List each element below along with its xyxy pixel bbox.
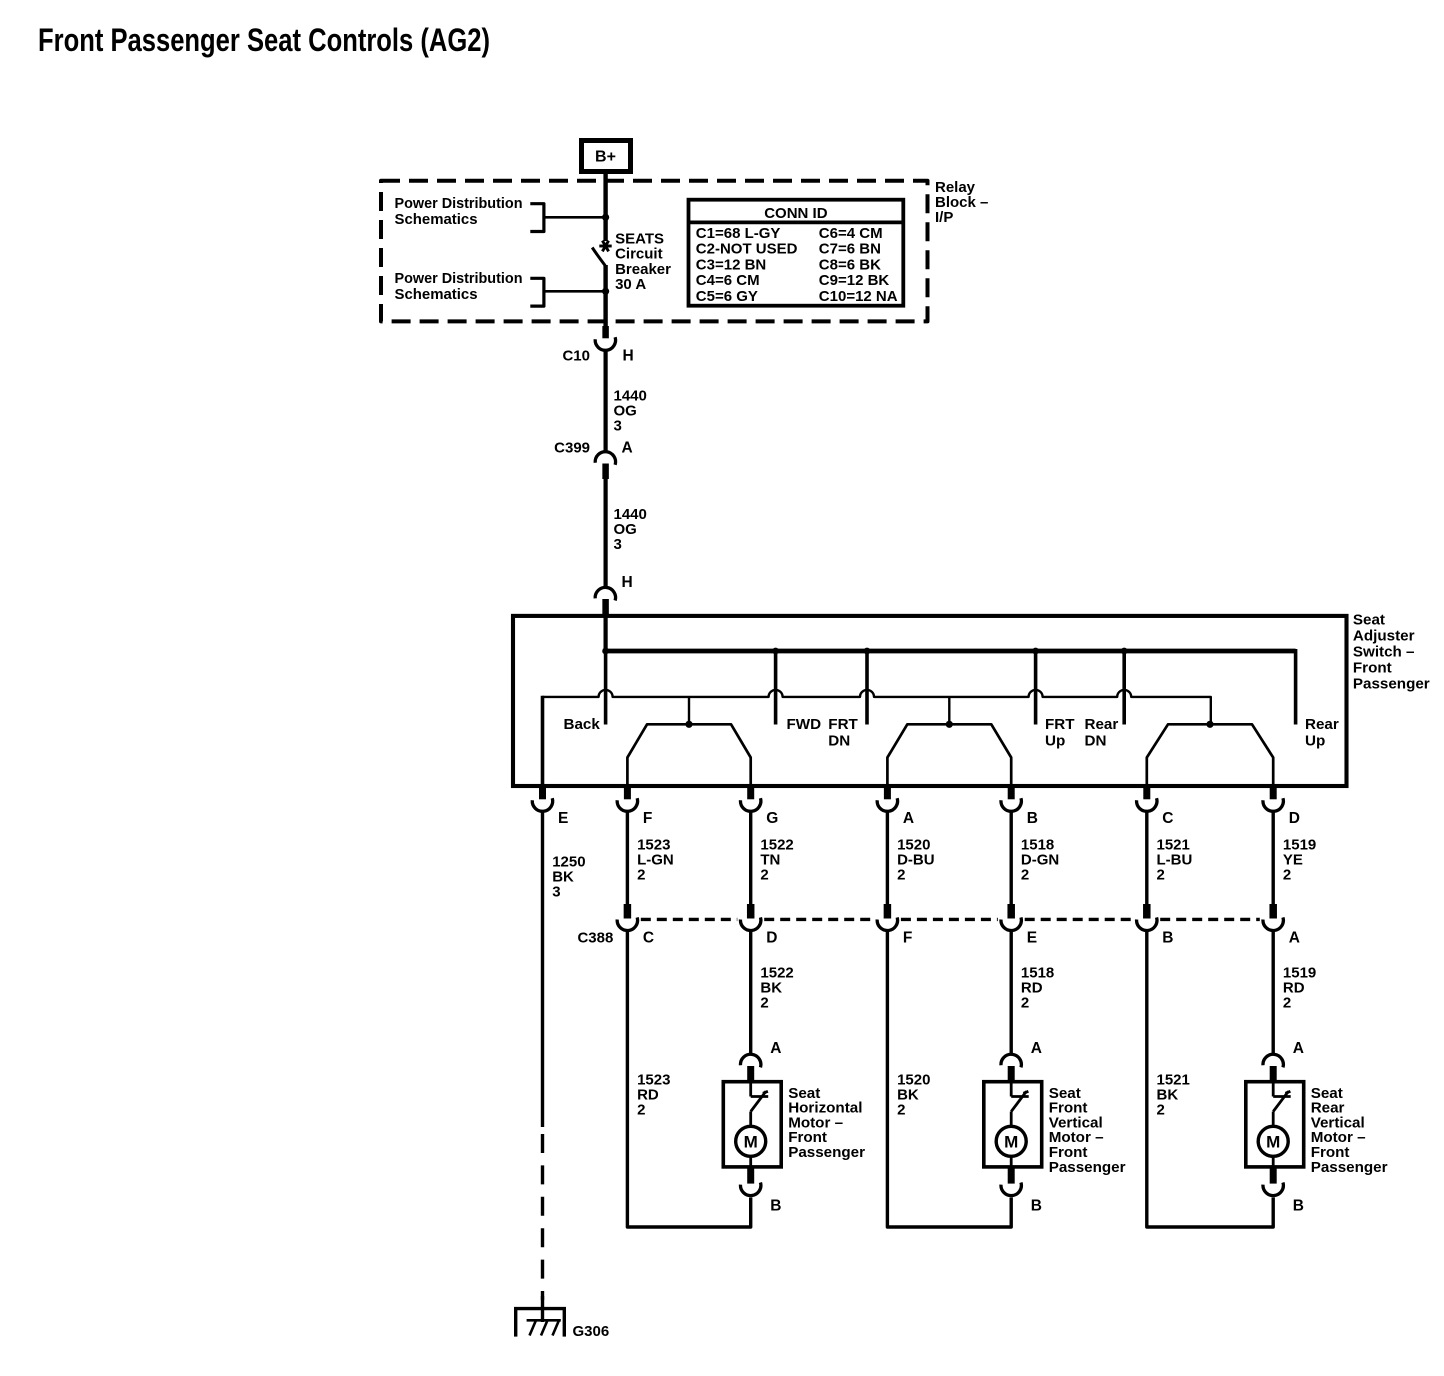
svg-text:E: E (558, 810, 568, 827)
svg-text:H: H (622, 574, 633, 591)
svg-text:C: C (1162, 810, 1173, 827)
FRT Up contact (1034, 651, 1038, 725)
pin E riser (541, 696, 545, 786)
wire to seat horizontal motor - front passenger pin A (749, 931, 752, 1055)
connector C388 pin F (884, 904, 892, 919)
svg-text:3: 3 (614, 536, 622, 553)
connector C388 pin E (1007, 904, 1015, 919)
bracket (top reference) (530, 204, 544, 232)
svg-text:M: M (1004, 1133, 1018, 1152)
wire: H into switch bus (603, 616, 607, 651)
svg-text:DN: DN (828, 733, 850, 750)
svg-text:M: M (744, 1133, 758, 1152)
svg-text:A: A (1293, 1040, 1304, 1057)
bus junction (1032, 648, 1039, 655)
svg-text:FRT: FRT (828, 716, 858, 733)
svg-text:E: E (1027, 929, 1037, 946)
FRT DN contact (865, 651, 869, 725)
svg-text:Passenger: Passenger (1311, 1159, 1388, 1176)
switch pin A (884, 787, 891, 799)
svg-text:C399: C399 (554, 440, 590, 457)
svg-text:B: B (1293, 1198, 1304, 1215)
svg-text:I/P: I/P (935, 209, 953, 226)
svg-text:Rear: Rear (1085, 716, 1119, 733)
relay block I/P dashed outline (381, 181, 928, 322)
seat adjuster switch - front passenger: box (513, 616, 1347, 786)
svg-text:C388: C388 (577, 929, 613, 946)
svg-text:C3=12 BN: C3=12 BN (696, 256, 766, 273)
bus junction (864, 648, 871, 655)
svg-text:Front Passenger Seat Controls: Front Passenger Seat Controls (AG2) (38, 22, 490, 58)
CONN ID table (689, 200, 904, 306)
svg-text:2: 2 (760, 995, 768, 1012)
svg-text:CONN ID: CONN ID (764, 205, 828, 222)
svg-text:2: 2 (1283, 867, 1291, 884)
wire: power dist 1 to main (544, 216, 606, 219)
svg-text:D: D (766, 929, 777, 946)
svg-text:2: 2 (897, 1101, 905, 1118)
svg-text:Power Distribution: Power Distribution (395, 270, 523, 287)
wire: breaker to C10 (603, 265, 607, 330)
svg-text:C7=6 BN: C7=6 BN (819, 241, 881, 258)
svg-text:A: A (1289, 929, 1300, 946)
svg-text:Adjuster: Adjuster (1353, 628, 1415, 645)
wire pin C to C388 (1145, 812, 1148, 905)
seat front vertical motor - front passenger: internal circuit breaker (1010, 1083, 1013, 1097)
switch pin C (1143, 787, 1150, 799)
wire 1440 OG 3 (lower) (603, 477, 607, 588)
ground wire 1250 BK dashed run (541, 1134, 544, 1300)
bracket (bottom reference) (530, 278, 544, 306)
svg-text:C1=68 L-GY: C1=68 L-GY (696, 225, 781, 242)
svg-text:2: 2 (760, 867, 768, 884)
wire: power dist 2 to main (544, 290, 606, 293)
svg-text:2: 2 (637, 1101, 645, 1118)
svg-text:Switch –: Switch – (1353, 644, 1415, 661)
rocker contact bridge at x=689.05 (627, 724, 750, 786)
wire to seat front vertical motor - front passenger pin A (1010, 931, 1013, 1055)
svg-text:C5=6 GY: C5=6 GY (696, 288, 758, 305)
SEATS circuit breaker 30A symbol (599, 245, 611, 248)
return wire loop to seat front vertical motor - front passenger pin B (887, 931, 1011, 1228)
svg-text:2: 2 (1021, 867, 1029, 884)
rocker pivot junction (1206, 721, 1213, 728)
svg-text:Front: Front (1353, 660, 1392, 677)
seat front vertical motor - front passenger: motor box (984, 1082, 1042, 1167)
svg-text:Back: Back (564, 716, 601, 733)
seat rear vertical motor - front passenger: connector pin B (1270, 1168, 1277, 1184)
svg-text:C2-NOT USED: C2-NOT USED (696, 241, 798, 258)
svg-text:G: G (766, 810, 778, 827)
FWD contact (774, 651, 778, 725)
breaker blade (592, 248, 605, 266)
seat rear vertical motor - front passenger: internal circuit breaker (1272, 1083, 1275, 1097)
svg-text:H: H (623, 348, 634, 365)
svg-text:2: 2 (1021, 995, 1029, 1012)
svg-text:B+: B+ (595, 149, 616, 166)
rocker pivot junction (685, 721, 692, 728)
seat rear vertical motor - front passenger: motor box (1246, 1082, 1304, 1167)
connector C388 pin A (1269, 904, 1277, 919)
Back contact (604, 651, 608, 725)
return wire loop to seat horizontal motor - front passenger pin B (627, 931, 750, 1228)
svg-text:B: B (1027, 810, 1038, 827)
svg-text:F: F (903, 929, 912, 946)
junction (602, 288, 609, 295)
svg-text:C10=12 NA: C10=12 NA (819, 288, 898, 305)
wire 1440 OG 3 (upper) (603, 352, 607, 453)
svg-text:Schematics: Schematics (395, 286, 478, 303)
wire pin F to C388 (626, 812, 629, 905)
switch pin D (1270, 787, 1277, 799)
svg-text:Passenger: Passenger (1353, 676, 1430, 693)
rocker contact bridge at x=1210.0 (1147, 724, 1273, 786)
seat front vertical motor - front passenger: connector pin B (1008, 1168, 1015, 1184)
svg-text:G306: G306 (573, 1323, 610, 1340)
svg-text:D: D (1289, 810, 1300, 827)
svg-text:A: A (622, 440, 633, 457)
seat horizontal motor - front passenger: internal circuit breaker (749, 1083, 752, 1097)
rocker contact bridge at x=949.3 (887, 724, 1011, 786)
svg-text:2: 2 (1157, 1101, 1165, 1118)
seat horizontal motor - front passenger: motor M (749, 1112, 752, 1127)
svg-text:Passenger: Passenger (788, 1144, 865, 1161)
connector C388 pin D (747, 904, 755, 919)
connector C388 pin C (624, 904, 632, 919)
Rear DN contact (1122, 651, 1126, 725)
switch common rail from pin E (with wire hops) (543, 690, 1211, 722)
wire pin A to C388 (886, 812, 889, 905)
switch pin G (747, 787, 754, 799)
svg-text:Up: Up (1305, 733, 1325, 750)
svg-text:30 A: 30 A (615, 276, 646, 293)
switch pin B (1008, 787, 1015, 799)
ground wire stub at G306 (541, 1296, 544, 1322)
svg-text:B: B (1162, 929, 1173, 946)
svg-text:C: C (643, 929, 654, 946)
svg-text:Rear: Rear (1305, 716, 1339, 733)
battery feed B+ box (579, 138, 633, 174)
svg-text:2: 2 (897, 867, 905, 884)
seat rear vertical motor - front passenger: motor M (1272, 1112, 1275, 1127)
switch pin E (539, 787, 546, 799)
svg-text:Seat: Seat (1353, 612, 1385, 629)
svg-text:FWD: FWD (787, 716, 822, 733)
svg-text:A: A (770, 1040, 781, 1057)
wire to seat rear vertical motor - front passenger pin A (1271, 931, 1274, 1055)
svg-text:Up: Up (1045, 733, 1065, 750)
svg-text:B: B (770, 1198, 781, 1215)
bus junction (1121, 648, 1128, 655)
seat horizontal motor - front passenger: motor box (723, 1082, 781, 1167)
junction (602, 214, 609, 221)
contact Rear Up drop (1294, 649, 1298, 725)
seat front vertical motor - front passenger: motor M (1010, 1112, 1013, 1127)
rail stub to rocker 2 (948, 697, 950, 724)
svg-text:C8=6 BK: C8=6 BK (819, 256, 881, 273)
svg-text:Passenger: Passenger (1049, 1159, 1126, 1176)
svg-text:C9=12 BK: C9=12 BK (819, 272, 890, 289)
bus junction (602, 648, 609, 655)
switch pin F (624, 787, 631, 799)
svg-text:Schematics: Schematics (395, 211, 478, 228)
svg-text:2: 2 (1283, 995, 1291, 1012)
ground G306 symbol (514, 1307, 566, 1310)
ground wire 1250 BK (solid run) (541, 812, 544, 1128)
bus junction (772, 648, 779, 655)
svg-text:DN: DN (1085, 733, 1107, 750)
stub above C10 (602, 326, 609, 338)
svg-text:C10: C10 (562, 348, 590, 365)
connector C10 pin H (595, 337, 615, 350)
connector C388 pin B (1143, 904, 1151, 919)
return wire loop to seat rear vertical motor - front passenger pin B (1147, 931, 1273, 1228)
svg-text:C4=6 CM: C4=6 CM (696, 272, 760, 289)
rail stub to rocker 1 (688, 697, 690, 724)
wire pin D to C388 (1271, 812, 1274, 905)
svg-text:FRT: FRT (1045, 716, 1075, 733)
connector C388 dashed harness line (641, 918, 738, 921)
svg-text:A: A (903, 810, 914, 827)
svg-text:C6=4 CM: C6=4 CM (819, 225, 883, 242)
wire pin B to C388 (1010, 812, 1013, 905)
svg-text:3: 3 (614, 417, 622, 434)
svg-text:3: 3 (552, 884, 560, 901)
svg-text:2: 2 (1157, 867, 1165, 884)
wire pin G to C388 (749, 812, 752, 905)
rocker pivot junction (946, 721, 953, 728)
svg-text:2: 2 (637, 867, 645, 884)
svg-text:Power Distribution: Power Distribution (395, 195, 523, 212)
svg-text:M: M (1266, 1133, 1280, 1152)
wire: B+ down to breaker (603, 172, 607, 241)
switch B+ bus bar (606, 649, 1296, 654)
svg-text:F: F (643, 810, 652, 827)
svg-text:B: B (1031, 1198, 1042, 1215)
seat horizontal motor - front passenger: connector pin B (747, 1168, 754, 1184)
svg-text:A: A (1031, 1040, 1042, 1057)
